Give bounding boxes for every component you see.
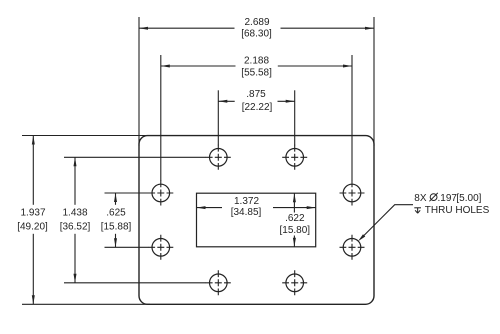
svg-text:[68.30]: [68.30]: [241, 28, 272, 39]
dimension line .625: [115, 193, 117, 205]
extension lines dim 1.937: [22, 135, 150, 137]
extension lines dim .875: [217, 90, 219, 145]
svg-text:[34.85]: [34.85]: [231, 207, 262, 218]
hole T2: [282, 145, 307, 170]
hole B2: [282, 270, 307, 295]
dimension line 2.188: [161, 65, 236, 67]
svg-text:[15.88]: [15.88]: [101, 222, 132, 233]
hole T1: [206, 145, 231, 170]
dimension line 1.438: [74, 157, 76, 205]
diameter symbol: [429, 193, 437, 201]
svg-text:.625: .625: [106, 207, 126, 218]
dimension line .875: [218, 100, 234, 102]
svg-text:[49.20]: [49.20]: [17, 222, 48, 233]
extension lines dim 2.188: [160, 55, 162, 181]
svg-text:[55.58]: [55.58]: [241, 68, 272, 79]
leader line to hole R2: [363, 205, 413, 236]
waveguide aperture cutout: [197, 193, 316, 247]
svg-text:[15.80]: [15.80]: [280, 225, 311, 236]
svg-text:THRU HOLES: THRU HOLES: [425, 205, 490, 216]
dimension line .622: [293, 193, 295, 212]
svg-text:[5.00]: [5.00]: [456, 193, 481, 204]
hole L1: [148, 181, 173, 206]
svg-text:[22.22]: [22.22]: [242, 102, 273, 113]
svg-text:.622: .622: [285, 213, 305, 224]
dimension line 1.937: [32, 136, 34, 205]
hole B1: [206, 270, 231, 295]
depth symbol: [414, 208, 421, 213]
svg-text:8X: 8X: [414, 193, 427, 204]
svg-text:1.937: 1.937: [20, 207, 45, 218]
svg-text:1.438: 1.438: [62, 207, 87, 218]
svg-text:2.188: 2.188: [244, 56, 269, 67]
hole R1: [340, 181, 365, 206]
extension lines dim 2.689: [138, 17, 140, 146]
svg-text:.875: .875: [246, 89, 266, 100]
svg-text:[36.52]: [36.52]: [60, 222, 91, 233]
svg-text:1.372: 1.372: [234, 196, 259, 207]
dimension line 1.372: [197, 207, 223, 209]
svg-text:2.689: 2.689: [244, 17, 269, 28]
flange plate outline: [139, 136, 374, 305]
hole L2: [148, 235, 173, 260]
extension lines dim 1.438: [64, 156, 206, 158]
dimension line 2.689: [139, 27, 235, 29]
svg-text:.197: .197: [438, 193, 458, 204]
extension lines dim .625: [105, 192, 149, 194]
hole R2: [340, 235, 365, 260]
